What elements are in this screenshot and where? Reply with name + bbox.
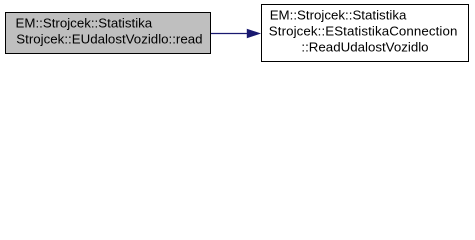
- edge arrow (midnightblue): [211, 29, 260, 37]
- node: EM::Strojcek::StatistikaStrojcek::EUdalostVozidlo::read (current, grey): [6, 13, 211, 54]
- svg-text:Strojcek::EStatistikaConnectio: Strojcek::EStatistikaConnection: [269, 23, 458, 38]
- svg-text:::ReadUdalostVozidlo: ::ReadUdalostVozidlo: [301, 39, 428, 54]
- svg-text:Strojcek::EUdalostVozidlo::rea: Strojcek::EUdalostVozidlo::read: [16, 32, 202, 47]
- node: EM::Strojcek::StatistikaStrojcek::EStatistikaConnection::ReadUdalostVozidlo: [262, 5, 469, 62]
- svg-text:EM::Strojcek::Statistika: EM::Strojcek::Statistika: [16, 16, 153, 31]
- svg-text:EM::Strojcek::Statistika: EM::Strojcek::Statistika: [270, 7, 407, 22]
